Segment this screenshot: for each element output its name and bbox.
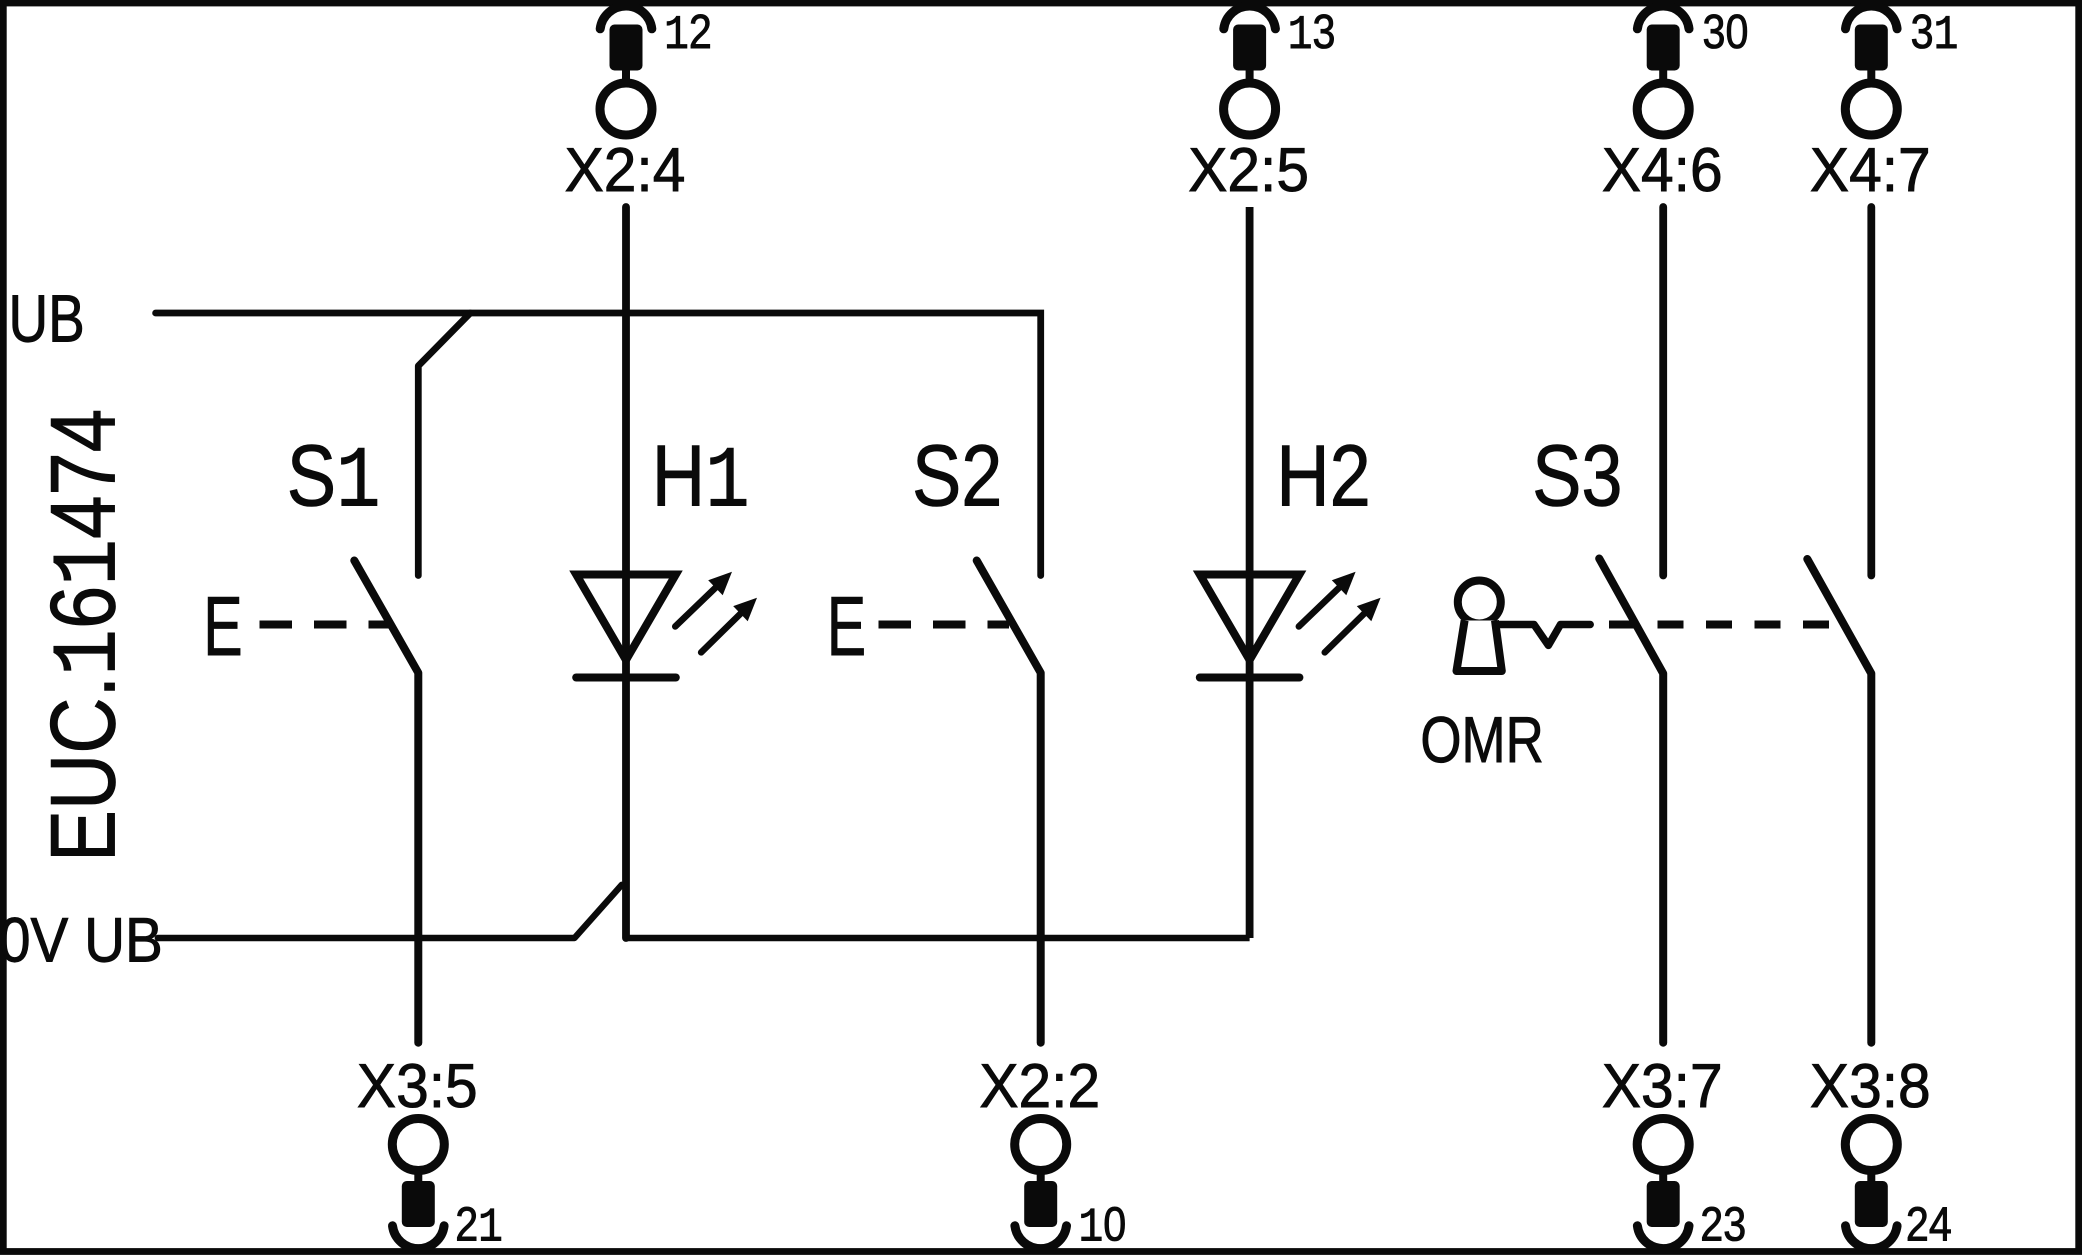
svg-text:X4:7: X4:7 bbox=[1810, 136, 1931, 205]
svg-text:X3:5: X3:5 bbox=[357, 1052, 478, 1121]
svg-text:21: 21 bbox=[455, 1199, 503, 1256]
svg-text:S3: S3 bbox=[1532, 428, 1622, 525]
svg-text:13: 13 bbox=[1288, 6, 1336, 63]
svg-text:X2:4: X2:4 bbox=[565, 136, 686, 205]
svg-text:24: 24 bbox=[1906, 1199, 1952, 1252]
svg-text:12: 12 bbox=[664, 6, 712, 63]
svg-text:X2:2: X2:2 bbox=[979, 1052, 1100, 1121]
svg-text:OMR: OMR bbox=[1420, 703, 1543, 776]
svg-text:0V UB: 0V UB bbox=[0, 905, 163, 975]
svg-text:30: 30 bbox=[1703, 6, 1749, 59]
svg-text:31: 31 bbox=[1911, 6, 1959, 63]
svg-text:S1: S1 bbox=[287, 428, 381, 533]
svg-text:UB: UB bbox=[9, 282, 85, 357]
svg-text:EUC.161474: EUC.161474 bbox=[33, 409, 143, 862]
svg-text:S2: S2 bbox=[912, 428, 1002, 525]
svg-text:E: E bbox=[203, 579, 242, 673]
svg-text:X3:8: X3:8 bbox=[1810, 1052, 1931, 1121]
svg-text:X3:7: X3:7 bbox=[1602, 1052, 1723, 1121]
svg-text:23: 23 bbox=[1700, 1199, 1746, 1252]
svg-text:X4:6: X4:6 bbox=[1602, 136, 1723, 205]
svg-text:H2: H2 bbox=[1276, 428, 1371, 525]
svg-text:E: E bbox=[827, 579, 866, 673]
svg-text:X2:5: X2:5 bbox=[1188, 136, 1309, 205]
svg-text:H1: H1 bbox=[652, 428, 750, 533]
svg-text:10: 10 bbox=[1079, 1199, 1127, 1256]
